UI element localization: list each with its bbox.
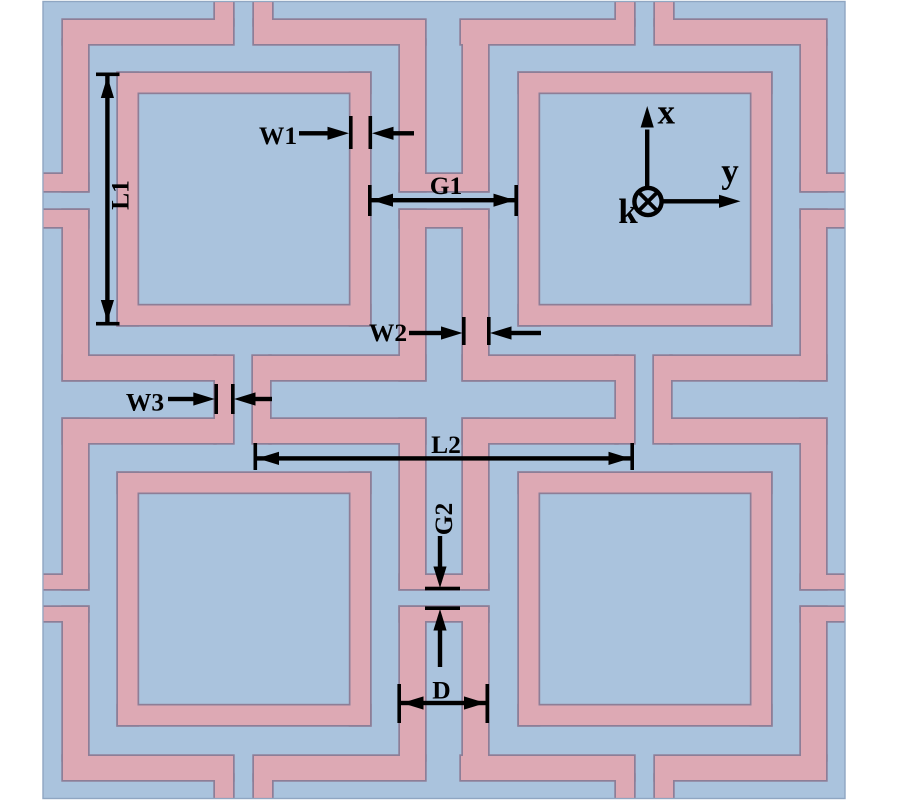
right-middle meander trace	[652, 208, 846, 590]
svg-text:G1: G1	[430, 171, 463, 200]
svg-text:W3: W3	[126, 388, 164, 417]
square ring resonator BL	[116, 471, 371, 726]
left-middle meander trace	[41, 208, 234, 590]
central convoluted meander trace	[251, 208, 635, 590]
dimension W1 (ring trace width)	[259, 116, 414, 150]
top-center U-shaped trace	[252, 0, 635, 193]
dimension W3 (bar trace width)	[126, 384, 272, 417]
svg-text:W2: W2	[369, 318, 407, 347]
svg-text:D: D	[432, 676, 450, 705]
square ring resonator TR	[517, 71, 772, 326]
dimension D (strip pair spacing)	[397, 676, 489, 724]
svg-text:x: x	[658, 93, 676, 132]
bottom-center U-shaped trace	[252, 605, 635, 801]
square ring resonator TL	[116, 71, 371, 326]
dimension G1 (gap between rings)	[368, 171, 518, 216]
dimension L1 (ring height, left)	[96, 73, 135, 326]
svg-text:L1: L1	[106, 180, 135, 210]
top-left corner bracket trace	[41, 0, 234, 193]
svg-text:y: y	[721, 152, 739, 191]
bottom-right corner bracket trace	[653, 605, 846, 801]
svg-text:W1: W1	[259, 121, 297, 150]
bottom-left corner bracket trace	[41, 605, 234, 801]
dimension G2 (bridge gap)	[425, 503, 460, 667]
svg-text:L2: L2	[431, 430, 461, 459]
dimension L2 (meander section length)	[254, 430, 635, 470]
dimension W2 (meander trace width)	[369, 317, 541, 347]
square ring resonator BR	[517, 471, 772, 726]
top-right corner bracket trace	[653, 0, 846, 193]
svg-text:k: k	[618, 192, 638, 231]
coordinate axes x, y and wave vector k	[618, 93, 740, 232]
svg-text:G2: G2	[429, 503, 458, 536]
